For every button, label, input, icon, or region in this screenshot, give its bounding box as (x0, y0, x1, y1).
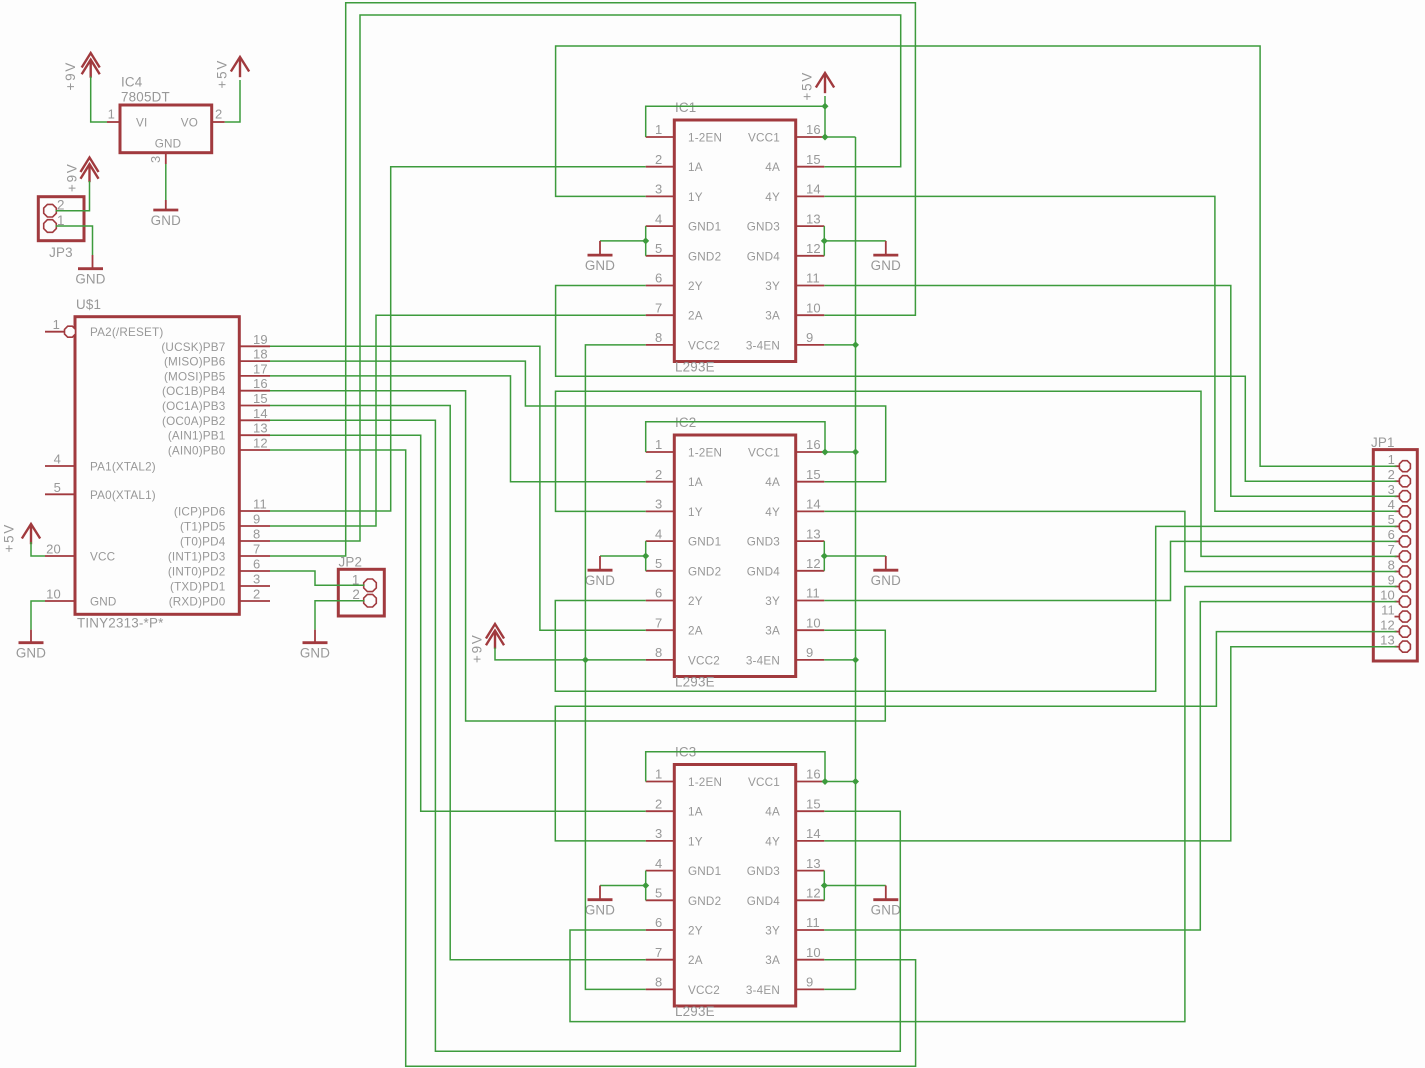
wire PD6 to IC1 1A (270, 167, 646, 511)
svg-text:4: 4 (655, 211, 662, 226)
svg-text:GND3: GND3 (747, 865, 780, 878)
wire IC2 3-4EN pin 9 to +5V trunk (824, 659, 855, 661)
svg-text:(OC1B)PB4: (OC1B)PB4 (162, 385, 226, 398)
svg-text:11: 11 (806, 586, 820, 601)
svg-text:1-2EN: 1-2EN (688, 132, 722, 145)
svg-text:9: 9 (1388, 572, 1395, 587)
wire PD4 to IC1 4A (270, 15, 901, 541)
svg-text:GND4: GND4 (747, 250, 781, 263)
svg-text:GND2: GND2 (688, 895, 721, 908)
svg-text:VCC: VCC (90, 551, 115, 564)
svg-text:4: 4 (655, 856, 662, 871)
svg-text:12: 12 (806, 241, 821, 256)
svg-text:(MOSI)PB5: (MOSI)PB5 (164, 370, 226, 383)
svg-text:7: 7 (655, 945, 662, 960)
svg-text:15: 15 (806, 467, 821, 482)
svg-text:2: 2 (655, 796, 662, 811)
wire IC2 3Y to JP1 pin 6 (824, 541, 1396, 600)
svg-text:11: 11 (806, 915, 820, 930)
svg-text:GND: GND (871, 903, 901, 918)
svg-text:4: 4 (655, 526, 662, 541)
wire U$1 PD2 pin 6 to JP2 pin 1 (270, 571, 365, 585)
svg-text:13: 13 (1380, 633, 1395, 648)
svg-text:20: 20 (46, 542, 61, 557)
svg-text:VCC2: VCC2 (688, 654, 720, 667)
svg-text:VCC1: VCC1 (748, 447, 780, 460)
svg-text:2: 2 (253, 587, 260, 602)
svg-text:10: 10 (806, 300, 821, 315)
wire IC1 4Y to JP1 pin 4 (824, 196, 1396, 511)
svg-text:10: 10 (806, 615, 821, 630)
svg-text:JP3: JP3 (49, 245, 73, 260)
wire IC1 3Y to JP1 pin 3 (824, 286, 1396, 497)
svg-text:GND1: GND1 (688, 865, 721, 878)
wire IC2 GND3/GND4 tie (821, 541, 886, 571)
ground symbol (JP3) (75, 255, 105, 287)
wire IC1 3-4EN pin 9 to +5V trunk (824, 344, 855, 346)
svg-text:12: 12 (806, 886, 821, 901)
svg-text:2Y: 2Y (688, 595, 703, 608)
svg-text:8: 8 (655, 645, 662, 660)
wire 7805 VO pin 2 to +5V (225, 80, 240, 122)
svg-text:GND: GND (585, 258, 615, 273)
wire IC3 GND3/GND4 tie (821, 871, 886, 901)
svg-text:VI: VI (136, 117, 147, 130)
svg-text:PA1(XTAL2): PA1(XTAL2) (90, 461, 156, 474)
svg-text:JP1: JP1 (1371, 435, 1395, 450)
svg-text:3A: 3A (765, 310, 780, 323)
wire IC1 GND1/GND2 tie (600, 226, 649, 256)
motor driver IC1 L293E (646, 100, 825, 375)
svg-text:2Y: 2Y (688, 280, 703, 293)
svg-text:7: 7 (655, 300, 662, 315)
svg-text:3A: 3A (765, 625, 780, 638)
wire IC3 4Y to JP1 pin 13 (824, 647, 1396, 841)
svg-text:3Y: 3Y (765, 925, 780, 938)
power +9V symbol (IC2 VCC2) (470, 624, 504, 663)
svg-text:2A: 2A (688, 954, 703, 967)
svg-text:GND2: GND2 (688, 565, 721, 578)
svg-text:1-2EN: 1-2EN (688, 776, 722, 789)
wire IC2 1-2EN/VCC1 +5V loop (646, 422, 856, 456)
svg-text:(OC0A)PB2: (OC0A)PB2 (162, 415, 226, 428)
wire PB7 to IC2 2A (270, 346, 646, 630)
svg-text:U$1: U$1 (76, 297, 101, 312)
svg-text:9: 9 (806, 330, 813, 345)
wire PB5 to IC2 1A (270, 376, 646, 482)
svg-text:4: 4 (1388, 497, 1395, 512)
svg-text:11: 11 (253, 497, 267, 512)
svg-text:6: 6 (253, 557, 260, 572)
svg-text:16: 16 (806, 122, 821, 137)
svg-text:8: 8 (655, 975, 662, 990)
svg-text:GND2: GND2 (688, 250, 721, 263)
svg-text:13: 13 (806, 526, 821, 541)
wire IC2 1Y to JP1 pin 7 (556, 391, 1397, 556)
microcontroller U$1 TINY2313 (45, 297, 270, 631)
svg-text:2: 2 (655, 467, 662, 482)
svg-text:3-4EN: 3-4EN (746, 984, 780, 997)
svg-text:(MISO)PB6: (MISO)PB6 (164, 356, 226, 369)
svg-text:GND4: GND4 (747, 565, 781, 578)
svg-text:16: 16 (253, 376, 268, 391)
power +5V symbol (7805 output) (215, 57, 249, 89)
svg-text:12: 12 (253, 436, 268, 451)
wire JP2 pin 2 to ground (315, 601, 365, 630)
svg-text:GND: GND (871, 573, 901, 588)
svg-text:(ICP)PD6: (ICP)PD6 (174, 506, 226, 519)
svg-text:2: 2 (215, 107, 222, 122)
svg-text:5: 5 (655, 886, 662, 901)
svg-text:+5V: +5V (215, 59, 230, 89)
svg-text:3: 3 (655, 182, 662, 197)
power +5V symbol (U$1 VCC) (2, 523, 40, 553)
svg-text:GND: GND (871, 258, 901, 273)
wire IC3 2Y to JP1 pin 9 (570, 587, 1397, 1022)
wire PD3 to IC1 3A (270, 3, 915, 556)
svg-text:(INT0)PD2: (INT0)PD2 (168, 566, 226, 579)
svg-text:GND: GND (585, 573, 615, 588)
svg-text:VCC2: VCC2 (688, 984, 720, 997)
svg-text:+9V: +9V (65, 162, 80, 192)
svg-text:(INT1)PD3: (INT1)PD3 (168, 551, 226, 564)
svg-text:1: 1 (655, 437, 662, 452)
wire 7805 GND pin 3 down (165, 164, 167, 200)
wire IC1 GND3/GND4 tie (821, 226, 886, 256)
svg-text:VCC1: VCC1 (748, 132, 780, 145)
svg-text:IC1: IC1 (675, 100, 696, 115)
svg-text:13: 13 (806, 211, 821, 226)
wire +9V to IC2 VCC2 pin 8 (495, 648, 646, 664)
svg-text:GND: GND (75, 272, 105, 287)
ground symbol (JP2) (300, 630, 330, 661)
svg-text:2: 2 (352, 587, 360, 602)
svg-text:4A: 4A (765, 806, 780, 819)
svg-text:11: 11 (806, 271, 820, 286)
wire IC3 GND1/GND2 tie (600, 871, 649, 901)
svg-text:2A: 2A (688, 625, 703, 638)
motor driver IC2 L293E (646, 415, 825, 690)
svg-text:1: 1 (655, 767, 662, 782)
svg-text:1-2EN: 1-2EN (688, 447, 722, 460)
ground symbol (IC1 right) (871, 241, 901, 273)
svg-text:14: 14 (806, 182, 821, 197)
svg-text:10: 10 (1380, 587, 1395, 602)
svg-text:1: 1 (108, 107, 115, 122)
svg-text:VO: VO (181, 117, 198, 130)
ground symbol (IC3 right) (871, 886, 901, 918)
wire U$1 GND pin 10 to ground (31, 601, 45, 630)
wire PB1 to IC3 1A (270, 435, 646, 811)
svg-text:GND: GND (300, 646, 330, 661)
svg-text:3Y: 3Y (765, 280, 780, 293)
svg-text:+5V: +5V (2, 523, 17, 553)
svg-text:GND: GND (151, 213, 181, 228)
power +5V symbol (IC1) (800, 71, 834, 101)
svg-text:+5V: +5V (800, 71, 815, 101)
wire IC3 1Y to JP1 pin 12 (555, 632, 1396, 841)
wire +5V to U$1 VCC pin 20 (31, 542, 45, 556)
svg-text:1A: 1A (688, 161, 703, 174)
svg-text:+9V: +9V (63, 61, 78, 91)
ground symbol (IC1 left) (585, 241, 615, 273)
svg-text:3Y: 3Y (765, 595, 780, 608)
ground symbol (IC2 right) (871, 556, 901, 588)
svg-text:(T0)PD4: (T0)PD4 (180, 536, 226, 549)
svg-text:1Y: 1Y (688, 835, 703, 848)
svg-text:1: 1 (655, 122, 662, 137)
svg-text:16: 16 (806, 437, 821, 452)
wire +9V to 7805 VI pin 1 (91, 77, 107, 123)
wire PD5 to IC1 2A (270, 315, 646, 526)
svg-text:4Y: 4Y (765, 835, 780, 848)
svg-text:L293E: L293E (675, 675, 715, 690)
svg-text:7: 7 (1388, 542, 1395, 557)
svg-text:2A: 2A (688, 310, 703, 323)
svg-text:3: 3 (655, 497, 662, 512)
svg-text:7: 7 (253, 542, 260, 557)
svg-text:IC2: IC2 (675, 415, 696, 430)
wire +5V trunk IC1 VCC1 to IC3 3-4EN (852, 137, 859, 989)
svg-text:4: 4 (54, 452, 61, 467)
wire IC2 4Y to JP1 pin 8 (824, 511, 1396, 571)
svg-text:L293E: L293E (675, 360, 715, 375)
wire JP3 pin 2 to +9V (56, 181, 90, 211)
svg-text:2: 2 (1388, 467, 1395, 482)
svg-text:5: 5 (1388, 512, 1395, 527)
svg-text:3A: 3A (765, 954, 780, 967)
svg-text:9: 9 (806, 645, 813, 660)
svg-text:19: 19 (253, 332, 268, 347)
svg-text:IC4: IC4 (121, 75, 143, 90)
svg-text:8: 8 (1388, 557, 1395, 572)
svg-text:PA0(XTAL1): PA0(XTAL1) (90, 489, 156, 502)
ground symbol (IC3 left) (585, 886, 615, 918)
svg-text:13: 13 (806, 856, 821, 871)
svg-text:GND: GND (16, 646, 46, 661)
svg-text:6: 6 (655, 915, 662, 930)
svg-text:GND1: GND1 (688, 536, 721, 549)
svg-text:5: 5 (655, 556, 662, 571)
power +9V symbol (JP3) (65, 158, 98, 193)
svg-text:1Y: 1Y (688, 191, 703, 204)
wire PB2 to IC3 4A (270, 420, 900, 1051)
svg-text:12: 12 (1380, 617, 1395, 632)
svg-text:(AIN0)PB0: (AIN0)PB0 (168, 445, 226, 458)
connector JP1 (1371, 435, 1417, 661)
svg-text:18: 18 (253, 347, 268, 362)
svg-text:6: 6 (1388, 527, 1395, 542)
svg-text:GND4: GND4 (747, 895, 781, 908)
svg-text:(UCSK)PB7: (UCSK)PB7 (161, 341, 225, 354)
svg-text:VCC1: VCC1 (748, 776, 780, 789)
svg-text:4A: 4A (765, 161, 780, 174)
svg-text:6: 6 (655, 586, 662, 601)
svg-text:15: 15 (253, 391, 268, 406)
wire IC2 GND1/GND2 tie (600, 541, 649, 571)
svg-text:GND: GND (585, 903, 615, 918)
wire PB0 to IC3 3A (270, 450, 916, 1066)
wire IC3 3-4EN pin 9 to +5V trunk (824, 988, 855, 990)
svg-text:6: 6 (655, 271, 662, 286)
svg-text:2: 2 (655, 152, 662, 167)
svg-text:VCC2: VCC2 (688, 339, 720, 352)
svg-text:16: 16 (806, 767, 821, 782)
svg-text:2Y: 2Y (688, 925, 703, 938)
wire +9V trunk to IC1 VCC2 pin 8 (585, 345, 645, 660)
svg-text:(T1)PD5: (T1)PD5 (180, 521, 226, 534)
wire PB3 to IC3 2A (270, 406, 646, 960)
wire IC3 1-2EN/VCC1 +5V loop (646, 752, 856, 785)
connector JP2 (338, 555, 384, 617)
voltage regulator IC4 7805DT (107, 75, 225, 165)
svg-text:1: 1 (53, 317, 60, 332)
svg-text:3-4EN: 3-4EN (746, 654, 780, 667)
wire IC1 2Y to JP1 pin 2 (556, 286, 1397, 482)
svg-text:L293E: L293E (675, 1004, 715, 1019)
connector JP3 (38, 197, 84, 260)
svg-text:GND1: GND1 (688, 221, 721, 234)
svg-text:1A: 1A (688, 476, 703, 489)
svg-text:3: 3 (148, 154, 163, 163)
svg-text:14: 14 (806, 497, 821, 512)
svg-text:(RXD)PD0: (RXD)PD0 (169, 596, 226, 609)
svg-text:15: 15 (806, 152, 821, 167)
svg-text:14: 14 (806, 826, 821, 841)
svg-text:9: 9 (806, 975, 813, 990)
svg-text:4Y: 4Y (765, 191, 780, 204)
svg-text:12: 12 (806, 556, 821, 571)
svg-text:7: 7 (655, 615, 662, 630)
svg-text:4A: 4A (765, 476, 780, 489)
svg-text:14: 14 (253, 406, 268, 421)
wire +5V to IC1 1-2EN and VCC1 (646, 96, 856, 141)
power +9V symbol (7805 input) (63, 53, 99, 91)
wire IC1 1Y to JP1 pin 1 (556, 46, 1397, 466)
motor driver IC3 L293E (646, 745, 825, 1020)
svg-text:1Y: 1Y (688, 506, 703, 519)
ground symbol (7805) (151, 200, 181, 228)
svg-text:4Y: 4Y (765, 506, 780, 519)
svg-text:GND: GND (155, 138, 182, 151)
svg-text:PA2(/RESET): PA2(/RESET) (90, 326, 163, 339)
svg-text:TINY2313-*P*: TINY2313-*P* (77, 616, 164, 631)
wire IC3 3Y to JP1 pin 10 (824, 602, 1396, 930)
wire PB6 to IC2 4A (270, 361, 886, 482)
svg-text:3: 3 (655, 826, 662, 841)
svg-text:3: 3 (1388, 482, 1395, 497)
wire JP3 pin 1 to ground (56, 226, 93, 255)
wire PB4 to IC2 3A (270, 391, 885, 721)
svg-text:8: 8 (655, 330, 662, 345)
svg-text:3: 3 (253, 572, 260, 587)
svg-text:1: 1 (1388, 452, 1395, 467)
svg-text:(TXD)PD1: (TXD)PD1 (170, 581, 226, 594)
svg-text:GND3: GND3 (747, 221, 780, 234)
wire +9V trunk to IC3 VCC2 pin 8 (585, 660, 645, 990)
svg-text:13: 13 (253, 421, 268, 436)
svg-text:GND: GND (90, 596, 117, 609)
ground symbol (U$1) (16, 630, 46, 661)
svg-text:3-4EN: 3-4EN (746, 339, 780, 352)
svg-text:17: 17 (253, 361, 268, 376)
svg-text:1A: 1A (688, 806, 703, 819)
svg-text:15: 15 (806, 796, 821, 811)
svg-text:7805DT: 7805DT (121, 90, 170, 105)
svg-text:9: 9 (253, 512, 260, 527)
svg-text:+9V: +9V (470, 633, 485, 663)
svg-text:(OC1A)PB3: (OC1A)PB3 (162, 400, 226, 413)
svg-text:GND3: GND3 (747, 536, 780, 549)
svg-text:10: 10 (806, 945, 821, 960)
svg-text:(AIN1)PB1: (AIN1)PB1 (168, 430, 226, 443)
svg-text:11: 11 (1381, 602, 1395, 617)
wire IC2 2Y to JP1 pin 5 (555, 526, 1396, 691)
svg-text:10: 10 (46, 587, 61, 602)
svg-text:8: 8 (253, 527, 260, 542)
ground symbol (IC2 left) (585, 556, 615, 588)
svg-text:5: 5 (54, 480, 61, 495)
svg-text:5: 5 (655, 241, 662, 256)
